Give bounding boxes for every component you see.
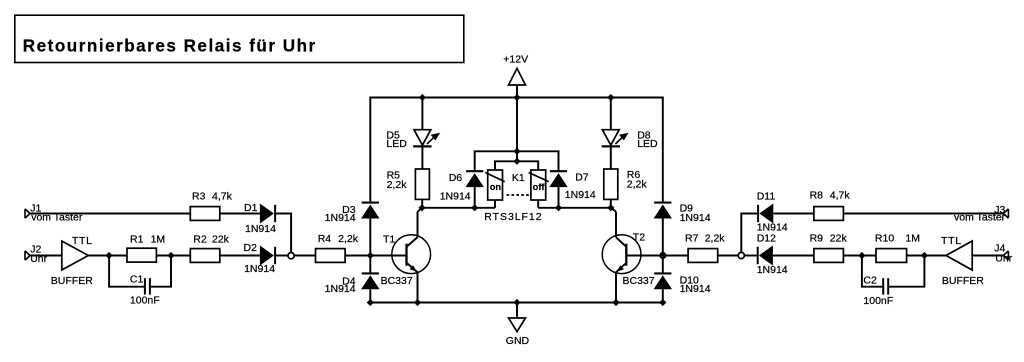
svg-text:22k: 22k: [830, 233, 848, 245]
svg-text:2,2k: 2,2k: [627, 179, 648, 191]
svg-text:D12: D12: [757, 233, 776, 245]
svg-text:R3: R3: [192, 190, 206, 202]
svg-text:LED: LED: [386, 138, 407, 150]
svg-text:1N914: 1N914: [325, 212, 356, 224]
svg-text:D6: D6: [449, 172, 463, 184]
svg-text:+12V: +12V: [503, 54, 528, 66]
svg-text:off: off: [533, 182, 546, 192]
svg-text:K1: K1: [512, 172, 525, 184]
svg-text:R8: R8: [810, 190, 824, 202]
svg-text:Retournierbares Relais für Uhr: Retournierbares Relais für Uhr: [23, 37, 317, 56]
svg-text:R10: R10: [875, 233, 894, 245]
svg-text:1M: 1M: [151, 233, 166, 245]
svg-text:1N914: 1N914: [757, 221, 788, 233]
svg-text:RTS3LF12: RTS3LF12: [484, 211, 542, 223]
svg-text:T2: T2: [633, 231, 645, 243]
svg-text:on: on: [490, 182, 502, 192]
svg-text:Uhr: Uhr: [995, 253, 1012, 265]
svg-text:1N914: 1N914: [757, 264, 788, 276]
svg-text:D1: D1: [244, 202, 258, 214]
svg-text:2,2k: 2,2k: [338, 233, 359, 245]
svg-text:GND: GND: [506, 335, 530, 347]
svg-text:D7: D7: [575, 171, 589, 183]
svg-text:R9: R9: [810, 233, 824, 245]
svg-text:TTL: TTL: [72, 235, 93, 247]
svg-text:4,7k: 4,7k: [212, 190, 233, 202]
svg-text:1N914: 1N914: [565, 189, 596, 201]
svg-text:R7: R7: [685, 232, 699, 244]
svg-text:BC337: BC337: [623, 275, 655, 287]
svg-text:R4: R4: [318, 233, 332, 245]
svg-text:C2: C2: [863, 274, 877, 286]
svg-text:R1: R1: [130, 233, 144, 245]
svg-text:T1: T1: [383, 234, 395, 246]
svg-text:LED: LED: [637, 138, 658, 150]
svg-text:1N914: 1N914: [325, 283, 356, 295]
svg-text:BUFFER: BUFFER: [51, 275, 93, 287]
svg-text:BUFFER: BUFFER: [942, 275, 984, 287]
svg-text:D11: D11: [757, 190, 776, 202]
svg-text:22k: 22k: [212, 233, 230, 245]
svg-text:vom Taster: vom Taster: [954, 212, 1006, 224]
svg-text:100nF: 100nF: [130, 294, 160, 306]
svg-text:1M: 1M: [905, 233, 920, 245]
svg-text:R2: R2: [193, 233, 207, 245]
svg-text:1N914: 1N914: [440, 191, 471, 203]
svg-text:4,7k: 4,7k: [830, 190, 851, 202]
svg-text:vom Taster: vom Taster: [31, 212, 83, 224]
svg-text:1N914: 1N914: [245, 223, 276, 235]
svg-text:Uhr: Uhr: [30, 253, 47, 265]
svg-text:1N914: 1N914: [244, 263, 275, 275]
svg-text:2,2k: 2,2k: [387, 179, 408, 191]
svg-text:100nF: 100nF: [863, 295, 893, 307]
svg-text:D2: D2: [244, 242, 258, 254]
svg-text:1N914: 1N914: [680, 212, 711, 224]
svg-text:BC337: BC337: [381, 275, 413, 287]
svg-text:TTL: TTL: [941, 235, 962, 247]
svg-text:2,2k: 2,2k: [705, 232, 726, 244]
svg-text:1N914: 1N914: [680, 283, 711, 295]
svg-text:C1: C1: [130, 274, 144, 286]
